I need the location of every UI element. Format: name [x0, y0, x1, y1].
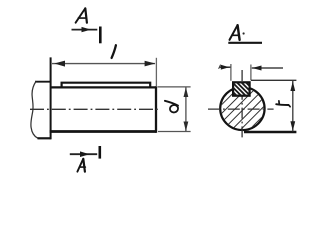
shaft top line: [51, 86, 157, 88]
key width dim: right arrow: [252, 66, 283, 71]
label d (rotated): [165, 101, 179, 114]
section arrow (bottom): [70, 151, 97, 157]
shaft right edge: [155, 86, 157, 133]
section line tick (top): [99, 27, 102, 44]
break line (wavy): [31, 81, 38, 138]
label l: [112, 45, 116, 58]
l right extension line: [155, 58, 157, 86]
shaft circle: [220, 87, 264, 130]
section arrow (top): [72, 27, 98, 32]
view label A (underlined): [230, 25, 240, 40]
d dimension line with arrows: [184, 87, 189, 131]
shaft left edge / shoulder (also l left extension): [50, 57, 52, 139]
vertical center line: [241, 70, 243, 139]
key (side view): [62, 83, 151, 88]
t bottom line (thick, from circle bottom): [244, 131, 296, 133]
t top extension line: [251, 79, 297, 81]
key (section) with hatch: [211, 70, 269, 105]
key width extension left: [230, 64, 232, 81]
d dim bottom extension: [158, 131, 191, 133]
small dot after A: [243, 32, 245, 34]
section label A (top): [76, 8, 87, 22]
stub bottom line: [38, 137, 52, 139]
horizontal center line: [208, 108, 274, 110]
keyway slot (white): [233, 83, 250, 96]
t dimension line with arrows: [290, 81, 295, 131]
key width dim: left arrow: [219, 65, 231, 70]
dimension l: line with outward arrowheads: [52, 61, 155, 67]
label t (rotated): [276, 101, 290, 107]
center line (left view): [30, 108, 159, 110]
section label A (bottom): [77, 159, 85, 172]
shaft bottom line: [50, 130, 157, 133]
key width extension right: [250, 65, 252, 81]
d dim top extension: [158, 86, 191, 88]
section line tick (bottom): [99, 146, 102, 159]
stub top line: [35, 81, 51, 83]
